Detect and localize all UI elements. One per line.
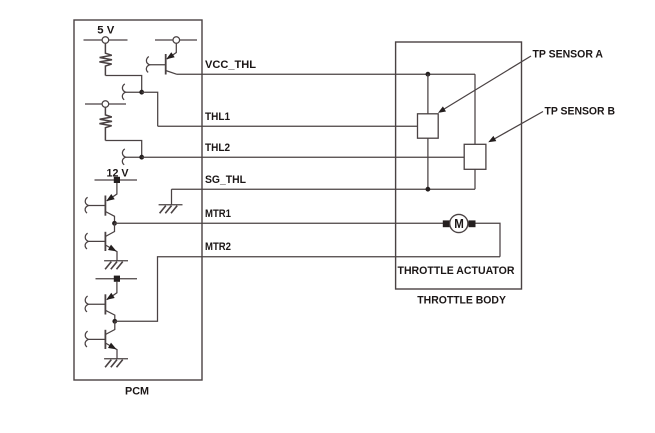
svg-text:5 V: 5 V — [97, 25, 115, 37]
wire from R2 to node THL2 — [105, 141, 141, 158]
wire SG_THL up to TP sensor B — [474, 169, 476, 189]
svg-text:SG_THL: SG_THL — [205, 174, 246, 186]
power terminal 12V #1 (square) — [95, 177, 138, 183]
transistor Q2 (PNP) emitter — [106, 183, 117, 201]
wire MTR2 (from J4 up and right) — [115, 257, 500, 322]
wire TP sensor A to SG node — [427, 138, 429, 189]
svg-text:MTR2: MTR2 — [205, 241, 231, 253]
PCM box — [74, 20, 202, 380]
svg-text:THL2: THL2 — [205, 142, 230, 154]
transistor Q5 base stub and arc — [85, 331, 105, 347]
transistor Q1 collector — [166, 71, 177, 75]
transistor Q2 base bar — [104, 196, 106, 216]
junction node J1 — [139, 90, 144, 95]
callout arrow to TP sensor B — [488, 112, 543, 143]
ground (PCM signal ground) — [159, 205, 183, 214]
transistor Q5 base bar — [104, 330, 106, 349]
label TP SENSOR A — [533, 49, 604, 61]
TP sensor B box — [464, 144, 486, 169]
TP sensor A box — [418, 114, 439, 138]
junction node J4 — [112, 319, 117, 324]
resistor R1 — [99, 43, 112, 75]
wire THL1 — [158, 125, 418, 127]
power terminal 12V #2 (square) — [96, 276, 138, 282]
label THROTTLE BODY — [417, 295, 506, 307]
wire SG_THL to PCM ground — [171, 189, 173, 205]
transistor Q4 (PNP) emitter — [106, 282, 117, 300]
resistor R2 — [99, 107, 112, 140]
label TP SENSOR B — [545, 106, 616, 118]
transistor Q5 (NPN) collector — [105, 321, 114, 334]
label MTR1 — [205, 208, 231, 220]
motor M — [450, 214, 468, 232]
transistor Q4 collector — [105, 310, 114, 321]
transistor Q5 emitter — [105, 343, 117, 359]
label 5 V — [97, 25, 115, 37]
label PCM — [125, 386, 149, 398]
transistor Q4 base bar — [104, 294, 106, 314]
THROTTLE BODY box — [396, 42, 522, 289]
junction node J2 — [139, 155, 144, 160]
connector arc pickup THL1 — [122, 84, 141, 100]
wire THL2 — [142, 156, 465, 158]
junction node on VCC_THL at sensor A — [426, 72, 431, 77]
wire VCC_THL down to TP sensor A — [427, 74, 429, 114]
transistor Q1 (PNP) emitter — [166, 43, 176, 59]
svg-text:VCC_THL: VCC_THL — [205, 59, 256, 71]
wire MTR1 — [115, 222, 444, 224]
svg-text:M: M — [454, 216, 464, 231]
svg-text:TP SENSOR B: TP SENSOR B — [545, 106, 616, 118]
svg-text:THROTTLE ACTUATOR: THROTTLE ACTUATOR — [398, 265, 515, 277]
motor M brush right — [469, 220, 476, 227]
label 12 V — [107, 168, 130, 180]
transistor Q3 (NPN) collector — [105, 223, 114, 236]
svg-text:PCM: PCM — [125, 386, 149, 398]
wire VCC_THL — [177, 73, 476, 75]
transistor Q2 base stub and arc — [85, 197, 105, 213]
transistor Q3 base stub and arc — [85, 233, 105, 249]
motor M letter — [454, 216, 464, 231]
label MTR2 — [205, 241, 231, 253]
transistor Q3 base bar — [104, 232, 106, 251]
ground (Q5 emitter) — [104, 359, 128, 368]
svg-text:THROTTLE BODY: THROTTLE BODY — [417, 295, 506, 307]
wire from R1 to node THL1 — [105, 76, 141, 93]
svg-text:THL1: THL1 — [205, 111, 230, 123]
motor M brush left — [443, 220, 450, 227]
transistor Q1 base stub and arc — [146, 57, 165, 73]
label VCC_THL — [205, 59, 256, 71]
wire SG_THL — [172, 188, 476, 190]
transistor Q2 collector — [105, 212, 114, 224]
label THROTTLE ACTUATOR — [398, 265, 515, 277]
wire motor to MTR2 — [476, 223, 501, 256]
label THL1 — [205, 111, 230, 123]
junction node J3 — [112, 221, 117, 226]
label SG_THL — [205, 174, 246, 186]
connector arc pickup THL2 — [122, 149, 141, 165]
ground (Q3 emitter) — [104, 261, 128, 270]
svg-text:MTR1: MTR1 — [205, 208, 231, 220]
wire J1 to THL1 row — [142, 92, 158, 126]
transistor Q1 base bar — [165, 54, 167, 75]
callout arrow to TP sensor A — [438, 56, 531, 113]
junction node on SG_THL at sensor A — [426, 187, 431, 192]
power terminal 5V #3 — [85, 101, 126, 108]
power terminal 5V #1 — [84, 37, 128, 44]
wire VCC_THL down to TP sensor B — [474, 74, 476, 144]
power terminal 5V #2 — [155, 37, 197, 44]
svg-text:TP SENSOR A: TP SENSOR A — [533, 49, 604, 61]
label THL2 — [205, 142, 230, 154]
transistor Q3 emitter — [105, 245, 117, 261]
transistor Q4 base stub and arc — [85, 296, 105, 312]
